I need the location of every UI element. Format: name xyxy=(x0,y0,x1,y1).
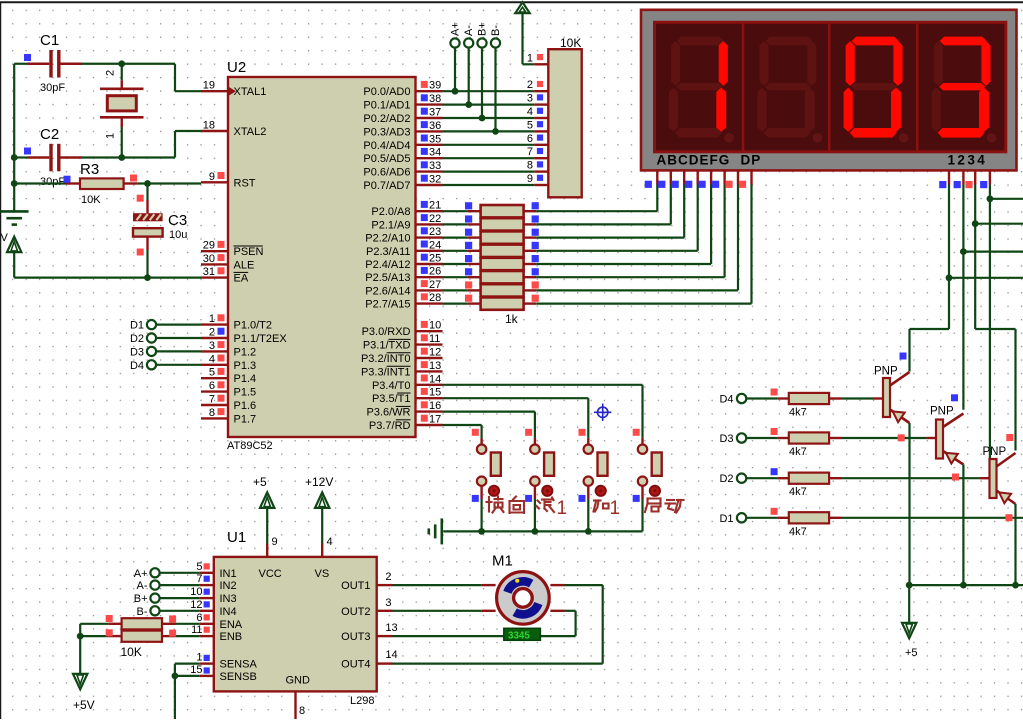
U2 pin 11 stub xyxy=(416,343,443,345)
svg-text:17: 17 xyxy=(429,414,441,426)
svg-text:10: 10 xyxy=(429,320,441,332)
svg-text:2: 2 xyxy=(527,79,533,91)
wire RN7 to segment xyxy=(524,289,537,291)
left vertical rail xyxy=(13,64,15,212)
svg-text:PNP: PNP xyxy=(983,446,1007,458)
svg-text:P0.6/AD6: P0.6/AD6 xyxy=(363,167,410,179)
button 3 top square xyxy=(579,429,586,436)
U2 pin 1 stub xyxy=(201,323,228,325)
svg-text:PNP: PNP xyxy=(874,366,898,378)
resistor RN3 1k xyxy=(481,231,524,243)
wire OUT1 to motor xyxy=(377,584,393,586)
svg-text:12: 12 xyxy=(429,347,441,359)
button 4 bottom square xyxy=(633,495,640,502)
wire RN4 to segment xyxy=(524,250,537,252)
button SW1 xyxy=(480,438,482,445)
wire digit2 tap right xyxy=(963,251,1023,253)
transistor bar xyxy=(990,459,997,498)
svg-text:4k7: 4k7 xyxy=(789,407,807,419)
U2 pin 27 stub xyxy=(416,289,443,291)
RN7 left square xyxy=(465,281,472,288)
U2 pin 28 stub xyxy=(416,302,443,304)
svg-text:P3.7/RD: P3.7/RD xyxy=(369,420,411,432)
capacitor C3 wire top xyxy=(146,184,148,201)
wire RN5 to segment xyxy=(524,263,537,265)
svg-text:B+: B+ xyxy=(477,22,489,36)
junction rail xyxy=(532,528,539,535)
ground symbol left xyxy=(0,210,29,213)
wire C1 row xyxy=(14,63,27,65)
U2 pin 8 stub xyxy=(201,417,228,419)
display bezel xyxy=(641,10,1017,171)
resistor pack RP1 body xyxy=(548,49,581,197)
R3 left net square xyxy=(64,176,71,183)
U2 pin 39 stub xyxy=(416,90,443,92)
svg-text:8: 8 xyxy=(527,160,533,172)
U2 pin 12 stub xyxy=(416,357,443,359)
display digit separators xyxy=(742,22,745,152)
wire P3 to button 3 xyxy=(443,397,589,399)
wire P2.3 to RN4 xyxy=(443,250,468,252)
svg-text:39: 39 xyxy=(429,80,441,92)
svg-text:+12V: +12V xyxy=(305,475,333,489)
svg-text:1: 1 xyxy=(557,498,568,519)
svg-text:10K: 10K xyxy=(560,36,581,50)
segment pin square xyxy=(699,181,706,188)
segment pin square xyxy=(645,181,652,188)
terminal D1 xyxy=(147,320,156,329)
wire RN1 to segment xyxy=(524,210,537,212)
junction B+ xyxy=(479,115,486,122)
U2 pin 24 stub xyxy=(416,250,443,252)
svg-text:1: 1 xyxy=(209,313,215,325)
button 1 bottom square xyxy=(472,495,479,502)
wire Q2 emitter down xyxy=(962,465,964,586)
svg-text:2: 2 xyxy=(385,571,391,583)
junction rail Q3 xyxy=(1012,582,1019,589)
svg-text:3345: 3345 xyxy=(508,630,530,641)
svg-text:4: 4 xyxy=(209,353,215,365)
RN5 right square xyxy=(532,255,539,262)
U2 pin 13 stub xyxy=(416,370,443,372)
terminal A- top xyxy=(464,38,473,47)
wire D4 to Q1 base xyxy=(842,397,874,399)
+12V arrow U1 xyxy=(315,492,329,508)
D1 net square xyxy=(771,508,778,515)
U2 pin 26 stub xyxy=(416,276,443,278)
svg-text:10K: 10K xyxy=(121,645,142,659)
junction A- xyxy=(465,101,472,108)
wire P3 to button 1 xyxy=(443,424,482,426)
svg-text:P2.6/A14: P2.6/A14 xyxy=(365,285,410,297)
svg-text:P3.5/T1: P3.5/T1 xyxy=(372,393,411,405)
wire SENSA SENSB xyxy=(175,662,200,664)
terminal D4 right xyxy=(737,394,746,403)
terminal D2 right xyxy=(737,474,746,483)
sheet border top xyxy=(0,1,1023,3)
svg-text:ENA: ENA xyxy=(220,619,243,631)
svg-text:P0.5/AD5: P0.5/AD5 xyxy=(363,153,410,165)
wire D3 to R xyxy=(746,437,777,439)
junction R3 row xyxy=(11,180,18,187)
svg-text:9: 9 xyxy=(272,536,278,548)
svg-text:+5: +5 xyxy=(253,475,267,489)
U1 pin 12 xyxy=(200,610,214,612)
svg-text:SENSB: SENSB xyxy=(220,671,257,683)
svg-text:35: 35 xyxy=(429,133,441,145)
U2 pin 5 stub xyxy=(201,377,228,379)
digit pin square xyxy=(980,181,987,188)
U2 pin 22 stub xyxy=(416,223,443,225)
svg-text:7: 7 xyxy=(196,573,202,585)
svg-text:XTAL2: XTAL2 xyxy=(234,126,267,138)
D3 net square xyxy=(771,428,778,435)
wire RN3 to segment xyxy=(524,236,537,238)
svg-text:OUT2: OUT2 xyxy=(341,606,370,618)
svg-text:P1.4: P1.4 xyxy=(234,373,257,385)
RN6 right square xyxy=(532,268,539,275)
terminal D4 xyxy=(147,360,156,369)
svg-text:10: 10 xyxy=(190,586,202,598)
U1 GND pin 8 xyxy=(294,691,296,719)
svg-text:ABCDEFG: ABCDEFG xyxy=(657,153,731,168)
svg-text:P0.1/AD1: P0.1/AD1 xyxy=(363,100,410,112)
svg-text:10K: 10K xyxy=(81,194,101,206)
svg-text:14: 14 xyxy=(429,373,441,385)
junction digit2 xyxy=(960,248,967,255)
button 1 bottom wire xyxy=(480,486,482,499)
C2 net square xyxy=(24,148,31,155)
svg-text:P3.2/INT0: P3.2/INT0 xyxy=(361,353,411,365)
wire B+ down xyxy=(481,48,483,118)
svg-text:P1.1/T2EX: P1.1/T2EX xyxy=(234,333,288,345)
digit pin square xyxy=(939,181,946,188)
wire D2 to P1.1 xyxy=(156,337,201,339)
resistor RN6 1k xyxy=(481,271,524,283)
RN2 right square xyxy=(532,215,539,222)
display segment pin A xyxy=(656,170,658,184)
svg-text:P2.7/A15: P2.7/A15 xyxy=(365,299,410,311)
wire P3 to button 2 xyxy=(443,411,535,413)
terminal B- U1 xyxy=(150,606,159,615)
terminal A+ U1 xyxy=(150,568,159,577)
R3 right net square xyxy=(130,175,137,182)
display digit pin 3 xyxy=(974,170,976,184)
svg-text:27: 27 xyxy=(429,279,441,291)
svg-text:P0.0/AD0: P0.0/AD0 xyxy=(363,86,410,98)
wire D3 to Q2 base xyxy=(842,437,927,439)
button label qi-dong xyxy=(645,499,661,513)
U2 pin 2 stub xyxy=(201,337,228,339)
C3 bottom square xyxy=(137,249,144,256)
RN4 left square xyxy=(465,242,472,249)
junction digit3 xyxy=(972,220,979,227)
wire terminal to IN xyxy=(160,572,200,574)
svg-text:A+: A+ xyxy=(134,568,148,580)
wire digit2 common xyxy=(962,185,964,410)
wire A+ down xyxy=(454,48,456,92)
svg-text:8: 8 xyxy=(209,407,215,419)
capacitor C3 wire bottom xyxy=(146,237,148,250)
svg-text:21: 21 xyxy=(429,200,441,212)
RN5 left square xyxy=(465,255,472,262)
junction rail Q2 xyxy=(960,582,967,589)
svg-text:1: 1 xyxy=(610,498,621,519)
display segment pin C xyxy=(683,170,685,184)
wire D4 to P1.3 xyxy=(156,364,201,366)
display digit 3 segments xyxy=(844,37,909,143)
RP1 pin 3 xyxy=(534,103,548,105)
svg-text:IN4: IN4 xyxy=(220,606,237,618)
wire P3 to button 4 xyxy=(443,384,643,386)
RN1 left square xyxy=(465,202,472,209)
display segment pin B xyxy=(670,170,672,184)
wire OUT2 to motor xyxy=(377,610,393,612)
svg-text:15: 15 xyxy=(190,664,202,676)
svg-text:ALE: ALE xyxy=(234,259,255,271)
capacitor C2 xyxy=(49,144,52,172)
wire P2.6 to RN7 xyxy=(443,289,468,291)
motor M1 xyxy=(497,572,550,625)
wire P2.5 to RN6 xyxy=(443,276,468,278)
emitter diagonal xyxy=(997,491,1016,505)
svg-text:P3.6/WR: P3.6/WR xyxy=(366,407,410,419)
U2 pin 19 stub xyxy=(201,90,228,92)
wire P2.2 to RN3 xyxy=(443,237,468,239)
svg-text:4k7: 4k7 xyxy=(789,486,807,498)
wire D2 to Q3 base xyxy=(842,477,980,479)
display digit pin 1 xyxy=(948,170,950,184)
display inner panel xyxy=(655,22,1006,152)
U1 pin 5 xyxy=(200,572,214,574)
U2 pin 32 stub xyxy=(416,184,443,186)
svg-text:U1: U1 xyxy=(227,529,246,546)
RN6 left square xyxy=(465,268,472,275)
RP1 pin 6 xyxy=(534,144,548,146)
svg-text:15: 15 xyxy=(429,387,441,399)
U1 pin 10 xyxy=(200,597,214,599)
U2 pin 6 stub xyxy=(201,390,228,392)
svg-text:P0.2/AD2: P0.2/AD2 xyxy=(363,113,410,125)
resistor 4k7 D4 xyxy=(777,397,789,399)
wire D1 row xyxy=(842,517,1023,519)
svg-text:24: 24 xyxy=(429,239,441,251)
wire digit1 tap right xyxy=(949,277,1023,279)
wire digit3 tap right xyxy=(975,223,1023,225)
U2 pin 37 stub xyxy=(416,117,443,119)
wire terminal to IN xyxy=(160,597,200,599)
svg-text:31: 31 xyxy=(203,266,215,278)
+5 arrow U1 xyxy=(260,492,274,508)
wire digit4 common xyxy=(989,185,991,460)
U2 pin 35 stub xyxy=(416,144,443,146)
svg-text:29: 29 xyxy=(203,240,215,252)
display segment pin D xyxy=(697,170,699,184)
resistor RN1 1k xyxy=(481,205,524,217)
svg-text:37: 37 xyxy=(429,107,441,119)
svg-text:A-: A- xyxy=(463,25,475,36)
svg-text:D3: D3 xyxy=(719,433,733,445)
junction C3 EA xyxy=(144,274,151,281)
wire RP2 to +5V xyxy=(79,624,81,674)
transistor bar xyxy=(883,378,890,417)
crystal X1 xyxy=(100,88,144,91)
svg-text:P3.3/INT1: P3.3/INT1 xyxy=(361,366,411,378)
svg-text:12: 12 xyxy=(190,599,202,611)
display digit pin 2 xyxy=(962,170,964,184)
svg-text:SENSA: SENSA xyxy=(220,659,258,671)
svg-text:P2.1/A9: P2.1/A9 xyxy=(371,219,410,231)
U1 L298 body xyxy=(214,557,377,692)
svg-text:P2.0/A8: P2.0/A8 xyxy=(371,206,410,218)
svg-text:P0.7/AD7: P0.7/AD7 xyxy=(363,180,410,192)
junction rail xyxy=(478,528,485,535)
RN7 right square xyxy=(532,281,539,288)
U2 pin 21 stub xyxy=(416,210,443,212)
svg-text:38: 38 xyxy=(429,93,441,105)
wire terminal to IN xyxy=(160,610,200,612)
svg-text:7: 7 xyxy=(209,394,215,406)
svg-text:RST: RST xyxy=(234,177,256,189)
svg-text:R3: R3 xyxy=(80,161,99,178)
crosshair marker xyxy=(594,404,611,421)
wire D2 to R xyxy=(746,477,777,479)
svg-text:P1.5: P1.5 xyxy=(234,387,257,399)
wire P2.0 to RN1 xyxy=(443,210,468,212)
wire P2.4 to RN5 xyxy=(443,263,468,265)
segment pin square xyxy=(672,181,679,188)
svg-text:OUT3: OUT3 xyxy=(341,631,370,643)
svg-text:OUT4: OUT4 xyxy=(341,659,370,671)
crystal pin2 wire xyxy=(121,64,123,81)
resistor RN7 1k xyxy=(481,284,524,296)
svg-text:6: 6 xyxy=(209,380,215,392)
wire C2 row xyxy=(14,156,27,158)
U2 pin 15 stub xyxy=(416,397,443,399)
display digit 1 segments xyxy=(669,37,734,143)
junction rail Q1 xyxy=(906,582,913,589)
wire digit4 tap right xyxy=(990,198,1023,200)
collector diagonal xyxy=(890,372,910,386)
U1 pin 6 xyxy=(200,623,214,625)
svg-text:IN2: IN2 xyxy=(220,580,237,592)
svg-text:D1: D1 xyxy=(130,320,144,332)
svg-text:P1.0/T2: P1.0/T2 xyxy=(234,320,273,332)
svg-text:36: 36 xyxy=(429,120,441,132)
U2 XTAL1 clock arrow xyxy=(229,87,237,96)
U2 pin 31 stub xyxy=(201,276,228,278)
svg-text:P1.3: P1.3 xyxy=(234,360,257,372)
svg-text:U2: U2 xyxy=(227,59,246,76)
+5 rail right xyxy=(909,584,1023,586)
U2 pin 25 stub xyxy=(416,263,443,265)
terminal A+ top xyxy=(450,38,459,47)
buttons ground rail xyxy=(443,530,642,532)
wire +5V to EA row xyxy=(13,252,15,278)
svg-text:P3.1/TXD: P3.1/TXD xyxy=(363,340,411,352)
crystal pin1 wire xyxy=(121,117,123,127)
U2 pin 18 stub xyxy=(201,130,228,132)
svg-text:13: 13 xyxy=(385,622,397,634)
U2 pin 16 stub xyxy=(416,410,443,412)
svg-text:9: 9 xyxy=(527,173,533,185)
ground symbol buttons xyxy=(440,518,443,544)
RP2 squares xyxy=(106,615,113,622)
svg-text:8: 8 xyxy=(299,705,305,717)
svg-text:IN3: IN3 xyxy=(220,593,237,605)
svg-text:A-: A- xyxy=(137,580,148,592)
svg-text:22: 22 xyxy=(429,213,441,225)
svg-text:M1: M1 xyxy=(492,553,513,570)
terminal D3 xyxy=(147,347,156,356)
svg-text:6: 6 xyxy=(196,612,202,624)
svg-text:B-: B- xyxy=(490,25,502,36)
digit pin square xyxy=(965,181,972,188)
svg-text:VCC: VCC xyxy=(259,568,282,580)
wire D4 to R xyxy=(746,397,777,399)
capacitor C3 polarized xyxy=(133,213,163,221)
C3 top square xyxy=(137,195,144,202)
button 4 top square xyxy=(633,429,640,436)
wire OUT4 loop xyxy=(377,662,393,664)
resistor 4k7 D1 xyxy=(777,517,789,519)
wire OUT3 loop xyxy=(377,635,393,637)
motor counter display xyxy=(504,628,541,640)
svg-text:D4: D4 xyxy=(130,360,144,372)
emitter diagonal xyxy=(890,410,910,424)
button label jia-1 xyxy=(594,501,609,512)
svg-text:7: 7 xyxy=(527,146,533,158)
svg-text:PSEN: PSEN xyxy=(234,246,264,258)
svg-text:1: 1 xyxy=(196,652,202,664)
junction R3 C3 xyxy=(144,180,151,187)
segment pin square xyxy=(658,181,665,188)
transistor bar xyxy=(936,420,943,459)
wire A- down xyxy=(468,48,470,105)
U2 pin 23 stub xyxy=(416,236,443,238)
svg-text:PNP: PNP xyxy=(930,406,954,418)
junction digit4 xyxy=(987,195,994,202)
D2 net square xyxy=(771,468,778,475)
svg-text:1: 1 xyxy=(105,133,117,139)
wire xtal1 corner xyxy=(174,64,176,91)
svg-text:13: 13 xyxy=(429,360,441,372)
button 4 bottom wire xyxy=(641,486,643,499)
junction B- xyxy=(492,128,499,135)
+5V power arrow top xyxy=(515,2,529,13)
collector diagonal xyxy=(997,453,1016,467)
svg-text:P3.0/RXD: P3.0/RXD xyxy=(362,326,411,338)
wire digit3 common xyxy=(974,185,976,330)
Q1 collector square xyxy=(900,353,907,360)
button 1 top square xyxy=(472,429,479,436)
RP1 pin 2 xyxy=(534,90,548,92)
terminal A- U1 xyxy=(150,581,159,590)
RP1 pin 1 xyxy=(534,63,548,65)
button SW3 xyxy=(587,438,589,445)
U2 pin 3 stub xyxy=(201,350,228,352)
U1 VCC pin 9 xyxy=(266,508,268,544)
button 2 top square xyxy=(525,429,532,436)
svg-text:B+: B+ xyxy=(134,593,148,605)
svg-text:33: 33 xyxy=(429,160,441,172)
svg-text:2: 2 xyxy=(105,70,117,76)
svg-text:P2.3/A11: P2.3/A11 xyxy=(366,246,410,258)
wire +5 to RP1 pin1 xyxy=(521,13,523,64)
display digit 4 segments xyxy=(932,37,997,143)
svg-text:3: 3 xyxy=(209,340,215,352)
resistor pack RP2 10K xyxy=(80,623,108,625)
